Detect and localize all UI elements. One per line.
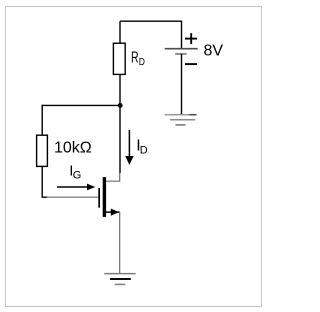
wire node to left branch bbox=[42, 104, 120, 106]
wire source to ground bbox=[119, 212, 121, 274]
wire battery to ground bbox=[181, 54, 183, 115]
wire node to drain bbox=[119, 105, 121, 173]
wire left branch lower bbox=[42, 166, 47, 197]
arrow IG bbox=[57, 184, 95, 191]
wire gate lead bbox=[47, 196, 99, 198]
MOSFET Q1 gate bar bbox=[98, 188, 100, 208]
svg-text:D: D bbox=[140, 145, 148, 157]
battery minus sign bbox=[185, 63, 197, 65]
wire top rail bbox=[120, 20, 182, 22]
MOSFET Q1 source lead arrow bbox=[106, 209, 120, 216]
wire RD top bbox=[119, 21, 121, 44]
svg-text:10kΩ: 10kΩ bbox=[54, 140, 92, 157]
node junction dot bbox=[118, 103, 123, 108]
svg-text:8V: 8V bbox=[204, 43, 224, 60]
resistor RG 10k bbox=[37, 135, 48, 166]
MOSFET Q1 channel bar bbox=[103, 177, 106, 217]
wire RD bottom to node bbox=[119, 74, 121, 106]
ground (source side) bbox=[104, 274, 135, 285]
resistor RD bbox=[113, 43, 125, 74]
battery V1 positive plate bbox=[165, 48, 198, 50]
svg-text:D: D bbox=[139, 56, 146, 68]
ground (battery side) bbox=[165, 115, 197, 125]
svg-text:G: G bbox=[73, 169, 82, 181]
wire battery top drop bbox=[181, 21, 183, 49]
battery V1 negative plate bbox=[175, 53, 186, 55]
wire left branch upper bbox=[41, 105, 43, 136]
battery plus sign bbox=[185, 33, 197, 44]
arrow ID bbox=[125, 130, 133, 165]
MOSFET Q1 drain lead bbox=[106, 173, 120, 181]
svg-text:R: R bbox=[131, 50, 139, 67]
